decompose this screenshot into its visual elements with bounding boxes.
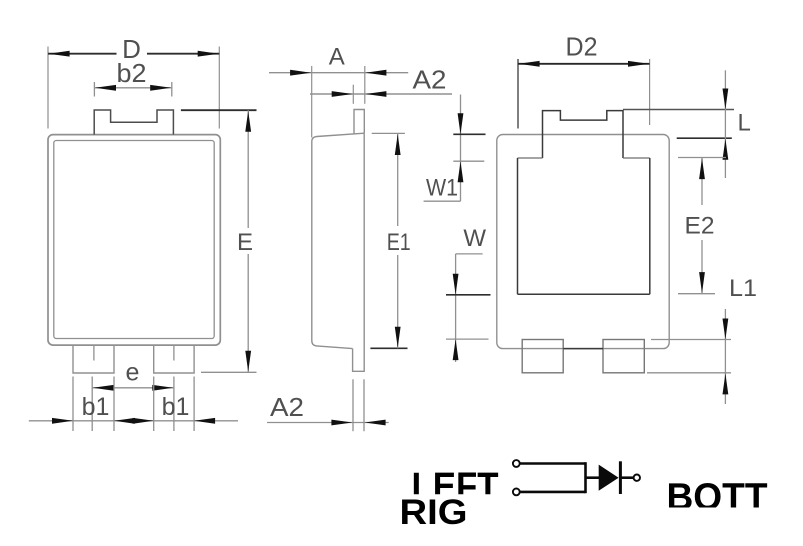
dimension E line and arrows — [245, 110, 251, 372]
label W1 with leader — [424, 175, 461, 202]
dimension L top extension line (tab top) — [623, 109, 734, 111]
dimension W1 bottom tick and arrow — [453, 161, 484, 182]
dimension L1 bottom extension line (pad bottom) — [647, 372, 731, 374]
label E — [237, 229, 253, 256]
front view body inner outline — [54, 141, 214, 339]
svg-text:L1: L1 — [729, 275, 757, 302]
svg-text:W1: W1 — [426, 175, 458, 202]
label LEFT (clipped) — [412, 466, 499, 509]
label e — [126, 359, 140, 387]
bottom view right pad — [603, 340, 644, 373]
bottom view outer outline — [497, 135, 669, 349]
label b1 left — [82, 393, 110, 421]
side view body — [312, 133, 364, 371]
dimension E2 line and arrows — [699, 158, 705, 294]
dimension E1 top extension line — [372, 132, 405, 134]
svg-text:D2: D2 — [566, 32, 598, 62]
front view right lead — [154, 345, 194, 373]
front view top tab — [94, 110, 173, 135]
dimension b2 line, ticks and arrows — [94, 82, 171, 97]
svg-text:A2: A2 — [413, 65, 447, 95]
dimension E1 bottom extension line — [370, 347, 407, 349]
svg-text:A2: A2 — [270, 392, 304, 422]
terminal pin 1 (top left circle) — [513, 460, 520, 467]
bottom view body sides and bottom — [518, 158, 650, 294]
label BOTT (clipped) — [667, 476, 768, 518]
bottom view body right step — [623, 157, 650, 159]
svg-text:L: L — [738, 110, 751, 137]
dimension W bottom tick and arrow — [446, 339, 489, 360]
dimension W1 top tick and arrow — [453, 113, 485, 134]
terminal pin 3 (cathode circle) — [634, 475, 640, 481]
dimension L bottom tick — [677, 137, 732, 139]
label D — [122, 34, 141, 64]
dimension L1 top extension line (pad top) — [651, 339, 731, 341]
dimension E1 line and arrows — [395, 133, 401, 348]
svg-text:E: E — [237, 229, 253, 256]
svg-text:b1: b1 — [162, 393, 190, 421]
dimension A extension lines — [312, 66, 365, 138]
wire from cathode — [620, 476, 633, 479]
dimension L1 line and arrows — [723, 309, 729, 404]
wire bottom — [521, 491, 586, 494]
svg-text:W: W — [463, 225, 486, 252]
svg-text:E1: E1 — [387, 229, 411, 256]
label b1 right — [162, 393, 190, 421]
dimension A2 bottom line and arrows — [267, 420, 389, 426]
bottom view lead bar between pads — [563, 348, 603, 350]
svg-text:RIG: RIG — [400, 493, 468, 532]
bottom view body left step — [518, 157, 543, 159]
dimension b1 line and arrows — [29, 418, 238, 424]
label L1 — [729, 275, 757, 302]
dimension A2 top tick — [352, 85, 354, 104]
label b2 — [117, 58, 147, 88]
bottom view left pad — [522, 340, 563, 373]
dimension E2 bottom tick — [678, 293, 715, 295]
dimension W top tick and arrow — [446, 274, 491, 295]
dimension W1 line — [460, 95, 462, 202]
wire to diode anode — [586, 476, 600, 479]
diode D1 cathode bar — [619, 461, 622, 494]
svg-text:e: e — [126, 359, 140, 387]
side view top lead — [354, 110, 364, 134]
dimension e line and arrows — [92, 385, 174, 391]
label A2 bottom — [270, 392, 304, 422]
label W with leader — [456, 225, 487, 254]
diode D1 anode triangle — [599, 465, 619, 491]
dimension L line and arrows — [723, 70, 729, 178]
front view left lead — [73, 345, 114, 373]
svg-text:b1: b1 — [82, 393, 110, 421]
terminal pin 2 (bottom left circle) — [513, 489, 520, 496]
dimension A2 bottom extension lines — [353, 379, 364, 431]
dimension A2 top line and arrows — [310, 91, 452, 97]
dimension E top extension line (from tab) — [181, 109, 257, 111]
dimension b1 extension lines — [73, 377, 194, 432]
svg-text:E2: E2 — [685, 213, 715, 240]
label L — [738, 110, 751, 137]
label A — [329, 43, 345, 70]
dimension A line and arrows — [269, 70, 408, 76]
dimension D line and arrows — [48, 51, 219, 57]
dimension E bottom extension line (from leads) — [201, 371, 257, 373]
label A2 top — [413, 65, 447, 95]
label RIG — [400, 493, 468, 532]
dimension D2 line and arrows — [518, 61, 650, 67]
svg-text:b2: b2 — [117, 58, 147, 88]
dimension D2 extension lines — [518, 59, 650, 129]
front view body outer outline — [48, 135, 220, 346]
label E2 — [685, 213, 715, 240]
dimension W line — [455, 254, 457, 362]
svg-text:A: A — [329, 43, 345, 70]
wire top — [521, 462, 586, 465]
dimension E2 top tick — [678, 157, 726, 159]
label D2 — [566, 32, 598, 62]
bottom view tab outline — [543, 111, 624, 158]
dimension D extension lines — [48, 47, 219, 129]
wire junction bar — [584, 462, 587, 493]
label E1 — [387, 229, 411, 256]
dimension e extension lines — [92, 377, 174, 432]
